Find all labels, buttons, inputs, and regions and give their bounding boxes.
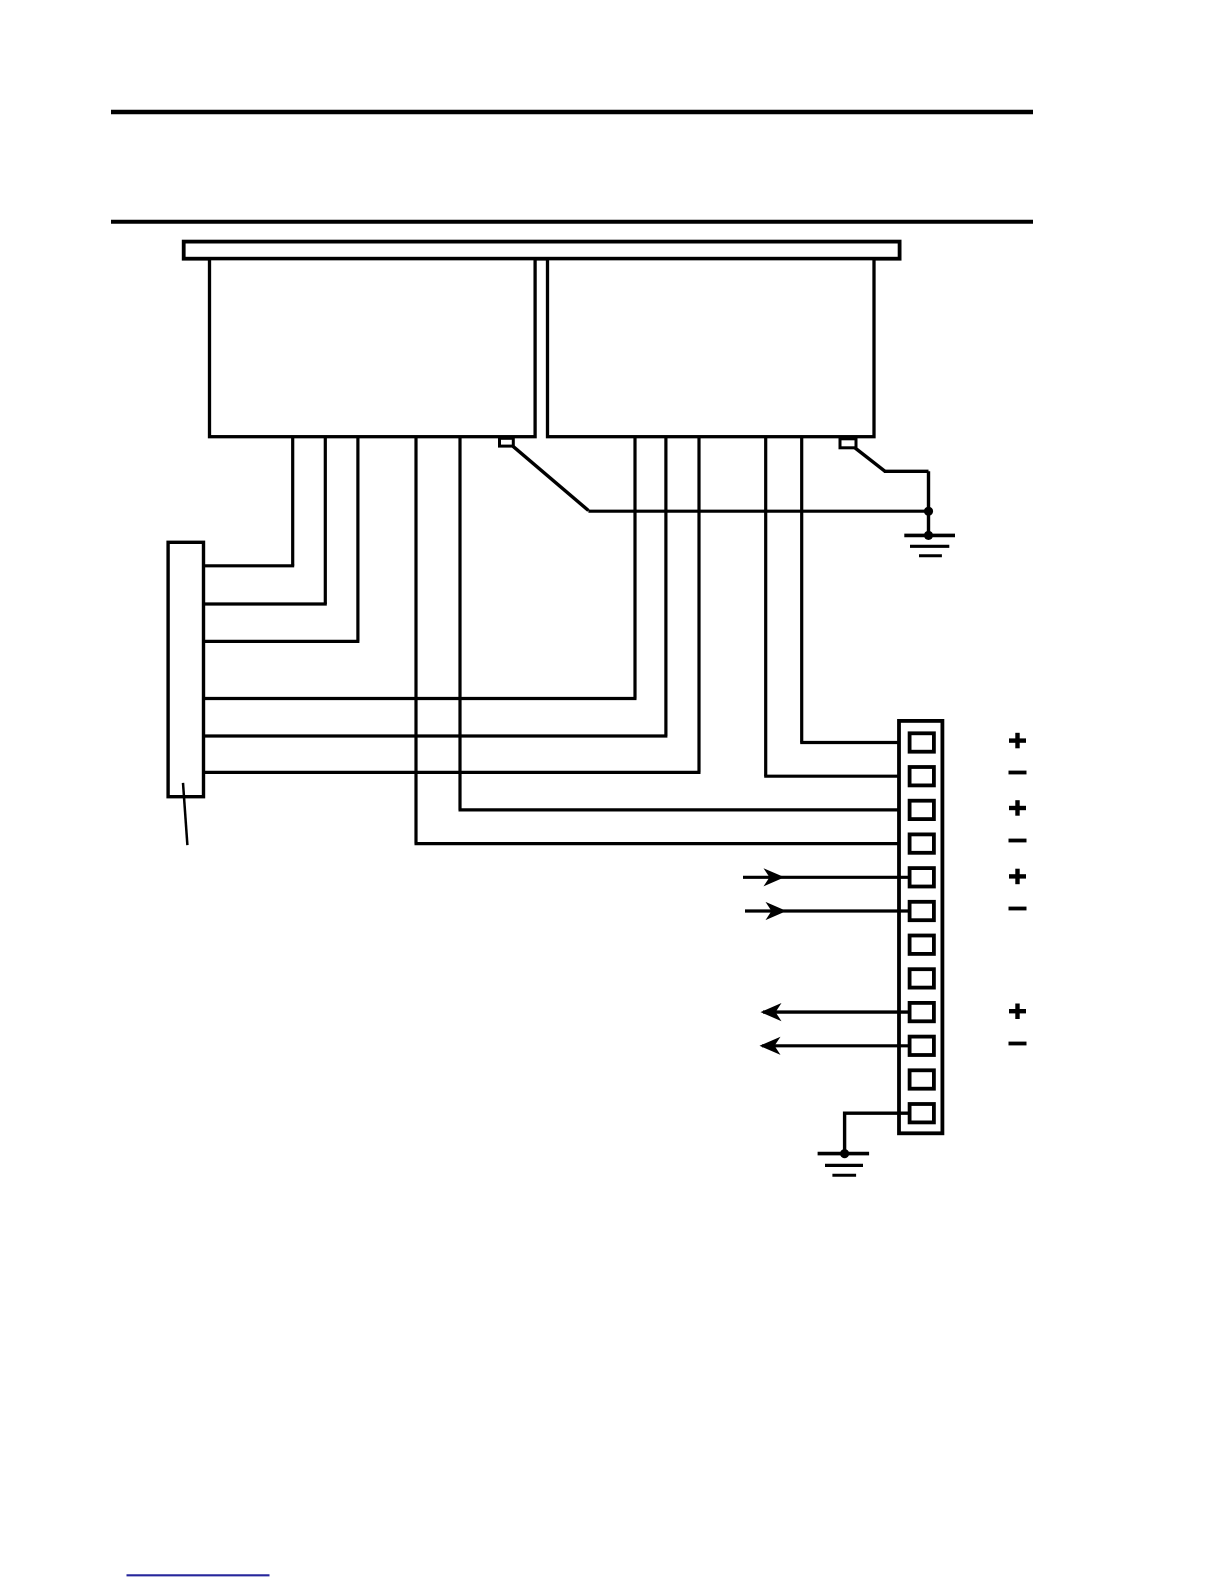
wire shield bus horizontal — [588, 510, 928, 513]
wire left shield diagonal — [513, 446, 588, 510]
wire right box pin5 vertical — [800, 436, 803, 743]
terminal square 1 — [910, 733, 934, 751]
header rule top — [111, 110, 1033, 114]
wire arrow into terminal 5 — [743, 868, 910, 886]
terminal block TB1 — [899, 721, 942, 1133]
wire right box pin3 horizontal to strip — [202, 771, 701, 774]
label + terminal 3 — [1009, 800, 1026, 816]
wire left box pin1 horizontal to strip — [202, 564, 294, 567]
label - terminal 10 — [1009, 1042, 1027, 1046]
wire left box pin5 vertical — [458, 436, 461, 810]
terminal square 12 — [910, 1104, 934, 1122]
label + terminal 1 — [1009, 733, 1026, 749]
monitor box right — [548, 259, 875, 437]
wire right box pin2 horizontal to strip — [202, 734, 667, 737]
label - terminal 4 — [1009, 839, 1027, 843]
wire left box pin2 horizontal to strip — [202, 602, 327, 605]
wire left box pin1 vertical — [291, 436, 294, 566]
left box shield terminal lug — [500, 438, 514, 446]
wire right box pin5 horizontal to terminal 1 — [800, 741, 909, 744]
terminal square 5 — [910, 868, 934, 886]
terminal square 11 — [910, 1070, 934, 1088]
ground symbol lower — [818, 1154, 870, 1176]
connector strip pointer pin — [183, 783, 187, 845]
wire left box pin3 horizontal to strip — [202, 640, 359, 643]
mounting rail bar — [184, 242, 900, 259]
label - terminal 6 — [1009, 907, 1027, 911]
junction shield bus — [924, 507, 933, 516]
wire right box pin4 vertical — [764, 436, 767, 776]
terminal square 9 — [910, 1003, 934, 1021]
terminal square 4 — [910, 834, 934, 852]
terminal square 8 — [910, 969, 934, 987]
wire left box pin4 horizontal to terminal 4 — [415, 842, 910, 845]
terminal square 2 — [910, 767, 934, 785]
terminal square 10 — [910, 1037, 934, 1055]
header rule bottom — [111, 220, 1033, 224]
junction ground top — [924, 531, 933, 540]
wire right box pin2 vertical — [664, 436, 667, 736]
wire right box pin1 vertical — [633, 436, 636, 699]
monitor box left — [210, 259, 536, 437]
wire right shield vertical to ground — [927, 471, 930, 535]
label + terminal 9 — [1009, 1004, 1026, 1020]
right box shield terminal lug — [840, 439, 856, 448]
footer link underline — [127, 1574, 270, 1576]
connector strip — [168, 542, 203, 796]
wire arrow out of terminal 9 — [761, 1003, 910, 1021]
wire left box pin4 vertical — [414, 436, 417, 844]
wire terminal 12 to ground vertical — [843, 1112, 846, 1154]
junction ground bottom — [840, 1149, 849, 1158]
label + terminal 5 — [1009, 869, 1026, 885]
wire terminal 12 to ground horizontal — [845, 1111, 910, 1114]
wire left box pin3 vertical — [356, 436, 359, 641]
wire arrow into terminal 6 — [745, 902, 910, 920]
label - terminal 2 — [1009, 771, 1027, 775]
wire right box pin3 vertical — [697, 436, 700, 772]
terminal square 3 — [910, 801, 934, 819]
wire left box pin2 vertical — [324, 436, 327, 604]
ground symbol upper — [904, 535, 955, 555]
wire right box pin1 horizontal to strip — [202, 697, 637, 700]
wire right box pin4 horizontal to terminal 2 — [764, 775, 909, 778]
terminal square 6 — [910, 902, 934, 920]
wire right shield horizontal — [884, 470, 929, 473]
wire left box pin5 horizontal to terminal 3 — [459, 808, 910, 811]
wire right shield diagonal — [855, 448, 886, 472]
terminal square 7 — [910, 936, 934, 954]
wire arrow out of terminal 10 — [760, 1037, 910, 1055]
